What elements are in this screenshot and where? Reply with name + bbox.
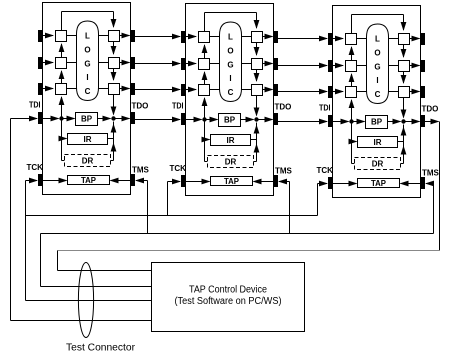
net TDO long return line bbox=[58, 250, 440, 252]
U3 output pin row3 bbox=[421, 86, 426, 98]
U2 TMS pin bbox=[274, 175, 279, 187]
U1 wire node A down to DR bbox=[61, 119, 63, 161]
U1 scan wire up into left cell3 bbox=[61, 97, 63, 119]
U3 wire node A to BP bbox=[352, 121, 365, 123]
U1 wire pin to cell row3 with arrow bbox=[43, 88, 54, 90]
svg-text:IR: IR bbox=[374, 138, 382, 147]
U1 boundary-scan cell right row1 bbox=[109, 31, 120, 42]
U3 TAP controller box bbox=[358, 179, 400, 188]
svg-text:C: C bbox=[375, 90, 381, 99]
U1 TAP controller box bbox=[68, 176, 110, 185]
svg-text:L: L bbox=[375, 35, 380, 44]
U2 wire cell to pin row1 with arrow bbox=[263, 36, 273, 38]
svg-text:O: O bbox=[84, 46, 90, 55]
U1 TCK pin bbox=[38, 174, 43, 186]
U2 wire logic to cell row3 bbox=[242, 89, 252, 91]
wire U1 TDO to U2 TDI bbox=[135, 119, 180, 121]
svg-text:IR: IR bbox=[84, 135, 92, 144]
svg-text:TMS: TMS bbox=[275, 167, 293, 176]
U3 wire node A down to DR bbox=[351, 122, 353, 164]
U3 output pin row2 bbox=[421, 60, 426, 72]
U1 TDI pin bbox=[38, 112, 43, 124]
net TMS drop from U2 TMS pin bbox=[279, 181, 290, 183]
svg-text:TAP: TAP bbox=[224, 177, 240, 186]
U2 scan wire up into left cell3 bbox=[204, 98, 206, 120]
U2 wire IR out to riser bbox=[251, 139, 257, 141]
svg-text:TDI: TDI bbox=[29, 101, 41, 110]
U2 input pin row2 bbox=[181, 58, 186, 70]
U2 input pin row3 bbox=[181, 84, 186, 96]
U3 wire logic to cell row1 bbox=[389, 38, 399, 40]
net TCK riser to U2 TCK pin bbox=[167, 182, 169, 216]
U2 bypass register BP bbox=[219, 114, 241, 127]
U3 wire cell to logic row1 bbox=[357, 38, 367, 40]
U1 input pin row1 bbox=[38, 30, 43, 42]
U3 boundary-scan cell left row3 bbox=[346, 87, 357, 98]
svg-text:TMS: TMS bbox=[422, 169, 440, 178]
U3 scan wire down into right cell1 bbox=[403, 15, 405, 31]
net TDO wire to TAP control device bbox=[57, 251, 59, 271]
net TDI wire from TAP control device to U1 TDI pin bbox=[11, 118, 38, 120]
U1 wire logic to cell row1 bbox=[99, 35, 109, 37]
U1 wire cell to pin row3 with arrow bbox=[120, 88, 130, 90]
U3 wire cell to logic row2 bbox=[357, 65, 367, 67]
svg-text:I: I bbox=[86, 73, 88, 82]
svg-text:TAP: TAP bbox=[81, 176, 97, 185]
U1 wire BP to node B bbox=[98, 118, 111, 120]
svg-text:TDO: TDO bbox=[132, 102, 149, 111]
U1 node B junction bbox=[111, 116, 115, 120]
U3 bypass register BP bbox=[366, 116, 388, 129]
U1 boundary-scan cell left row1 bbox=[56, 31, 67, 42]
U3 boundary-scan cell left row1 bbox=[346, 34, 357, 45]
U3 boundary-scan cell left row2 bbox=[346, 61, 357, 72]
U3 scan wire right cell2 to cell3 bbox=[403, 71, 405, 83]
U2 boundary-scan cell right row3 bbox=[252, 85, 263, 96]
U1 bypass register BP bbox=[76, 113, 98, 126]
test connector ellipse bbox=[78, 263, 93, 338]
U2 scan wire cell2 to cell1 bbox=[204, 45, 206, 58]
U1 node A junction bbox=[59, 116, 63, 120]
U3 scan wire cell2 to cell1 bbox=[351, 47, 353, 60]
U1 scan wire right cell2 to cell3 bbox=[113, 68, 115, 80]
net TDO return from U3 TDO pin with arrow bbox=[425, 121, 439, 123]
svg-text:BP: BP bbox=[371, 118, 383, 127]
U3 wire TMS pin to TAP with arrow bbox=[401, 183, 421, 185]
wire U2 row2 output to U3 row2 input bbox=[278, 65, 327, 67]
U3 boundary-scan cell right row2 bbox=[399, 61, 410, 72]
svg-text:TAP Control Device: TAP Control Device bbox=[189, 285, 267, 296]
U1 wire stub into IR with arrow bbox=[62, 138, 67, 140]
net TMS wire to TAP control device bbox=[40, 234, 42, 287]
U1 wire cell to logic row3 bbox=[67, 88, 77, 90]
wire U2 row3 output to U3 row3 input bbox=[278, 91, 327, 93]
U1 scan wire right cell1 to cell2 bbox=[113, 41, 115, 54]
U1 wire cell to pin row2 with arrow bbox=[120, 62, 130, 64]
U1 wire pin to cell row1 with arrow bbox=[43, 35, 54, 37]
net TCK wire to TAP control device bbox=[26, 300, 152, 302]
U1 scan wire cell2 to cell1 bbox=[61, 44, 63, 57]
wire U2 TDO to U3 TDI bbox=[278, 121, 327, 123]
U1 wire TCK pin to TAP with arrow bbox=[43, 180, 67, 182]
U1 input pin row3 bbox=[38, 83, 43, 95]
net TMS drop from U1 TMS pin bbox=[136, 180, 148, 182]
U3 wire TDI pin to node A bbox=[333, 121, 349, 123]
U2 wire TMS pin to TAP with arrow bbox=[254, 181, 274, 183]
U1 wire cell to logic row1 bbox=[67, 35, 77, 37]
U2 scan wire cell3 to cell2 bbox=[204, 72, 206, 84]
svg-text:TCK: TCK bbox=[317, 166, 334, 175]
U2 node A junction bbox=[202, 117, 206, 121]
U2 wire BP to node B bbox=[241, 119, 254, 121]
U2 scan wire down into right cell1 bbox=[256, 13, 258, 29]
U1 input pin row2 bbox=[38, 57, 43, 69]
svg-text:C: C bbox=[85, 87, 91, 96]
U2 wire pin to cell row2 with arrow bbox=[186, 63, 197, 65]
U3 wire logic to cell row2 bbox=[389, 65, 399, 67]
svg-text:G: G bbox=[227, 61, 233, 70]
device U2 package outline bbox=[186, 4, 274, 196]
net TCK vertical trunk bbox=[25, 181, 27, 301]
U1 scan wire over logic top bbox=[61, 12, 63, 31]
U2 output pin row3 bbox=[274, 84, 279, 96]
U1 riser DR/IR up to node B with arrows bbox=[113, 122, 115, 161]
U3 scan wire right cell1 to cell2 bbox=[403, 44, 405, 57]
U3 wire pin to cell row3 with arrow bbox=[333, 91, 344, 93]
U1 wire cell to logic row2 bbox=[67, 62, 77, 64]
U3 node B junction bbox=[401, 119, 405, 123]
U1 TDO pin bbox=[131, 112, 136, 124]
U2 boundary-scan cell right row1 bbox=[252, 32, 263, 43]
U3 node A junction bbox=[349, 119, 353, 123]
wire U1 row2 output to U2 row2 input bbox=[135, 63, 180, 65]
TAP control device box bbox=[152, 263, 305, 332]
U1 wire TDI pin to node A bbox=[43, 118, 59, 120]
U2 input pin row1 bbox=[181, 31, 186, 43]
svg-text:C: C bbox=[228, 88, 234, 97]
U3 instruction register IR bbox=[358, 137, 398, 148]
U2 output pin row1 bbox=[274, 31, 279, 43]
U2 scan wire right cell2 to cell3 bbox=[256, 69, 258, 81]
U2 boundary-scan cell right row2 bbox=[252, 59, 263, 70]
U3 wire cell to logic row3 bbox=[357, 91, 367, 93]
U3 input pin row2 bbox=[328, 60, 333, 72]
svg-text:(Test Software on PC/WS): (Test Software on PC/WS) bbox=[175, 296, 282, 307]
U3 wire pin to cell row1 with arrow bbox=[333, 38, 344, 40]
U3 wire cell to pin row2 with arrow bbox=[410, 65, 420, 67]
U1 wire TMS pin to TAP with arrow bbox=[111, 180, 131, 182]
net TCK wire into U1 TCK pin bbox=[26, 180, 38, 182]
device U1 package outline bbox=[43, 3, 131, 195]
U2 LOGIC core block bbox=[220, 22, 242, 102]
U3 TDO pin bbox=[421, 115, 426, 127]
svg-text:TAP: TAP bbox=[371, 179, 387, 188]
svg-text:TDI: TDI bbox=[172, 102, 184, 111]
U2 wire TDI pin to node A bbox=[186, 119, 202, 121]
U3 wire pin to cell row2 with arrow bbox=[333, 65, 344, 67]
U3 output pin row1 bbox=[421, 33, 426, 45]
U2 wire TCK pin to TAP with arrow bbox=[186, 181, 210, 183]
net TMS drop from U3 TMS pin bbox=[426, 183, 434, 185]
U1 data register DR (dashed) bbox=[65, 155, 111, 167]
svg-text:BP: BP bbox=[224, 116, 236, 125]
svg-text:IR: IR bbox=[227, 136, 235, 145]
U1 scan wire cell3 to cell2 bbox=[61, 71, 63, 83]
U2 TCK pin bbox=[181, 175, 186, 187]
svg-text:Test Connector: Test Connector bbox=[66, 343, 136, 354]
U2 wire stub into IR with arrow bbox=[205, 139, 210, 141]
svg-text:O: O bbox=[227, 47, 233, 56]
U1 wire logic to cell row3 bbox=[99, 88, 109, 90]
U2 wire pin to cell row3 with arrow bbox=[186, 89, 197, 91]
U3 input pin row3 bbox=[328, 86, 333, 98]
U2 TDO pin bbox=[274, 113, 279, 125]
svg-text:TDO: TDO bbox=[422, 105, 439, 114]
U3 boundary-scan cell right row3 bbox=[399, 87, 410, 98]
U3 wire node B to TDO pin bbox=[404, 121, 420, 123]
U2 TAP controller box bbox=[211, 177, 253, 186]
svg-text:I: I bbox=[376, 76, 378, 85]
svg-text:O: O bbox=[374, 49, 380, 58]
U1 wire node B to TDO pin bbox=[114, 118, 130, 120]
U3 scan wire cell3 to cell2 bbox=[351, 74, 353, 86]
U1 boundary-scan cell left row2 bbox=[56, 58, 67, 69]
U3 scan wire right cell3 to TDO node bbox=[403, 97, 405, 118]
U3 scan wire up into left cell3 bbox=[351, 100, 353, 122]
U3 scan wire over logic top bbox=[351, 15, 353, 34]
U2 wire logic to cell row2 bbox=[242, 63, 252, 65]
U3 data register DR (dashed) bbox=[355, 158, 401, 170]
U2 wire cell to logic row3 bbox=[210, 89, 220, 91]
U1 wire logic to cell row2 bbox=[99, 62, 109, 64]
U1 instruction register IR bbox=[68, 134, 108, 145]
U1 LOGIC core block bbox=[77, 21, 99, 101]
U1 wire pin to cell row2 with arrow bbox=[43, 62, 54, 64]
U2 boundary-scan cell left row2 bbox=[199, 59, 210, 70]
U2 TDI pin bbox=[181, 113, 186, 125]
U2 wire node A down to DR bbox=[204, 120, 206, 162]
svg-text:G: G bbox=[374, 63, 380, 72]
U2 wire cell to logic row1 bbox=[210, 36, 220, 38]
net TMS distribution line bbox=[41, 233, 434, 235]
U2 wire cell to pin row3 with arrow bbox=[263, 89, 273, 91]
svg-text:TCK: TCK bbox=[27, 163, 44, 172]
U3 wire BP to node B bbox=[388, 121, 401, 123]
wire U2 row1 output to U3 row1 input bbox=[278, 38, 327, 40]
U2 scan wire right cell1 to cell2 bbox=[256, 42, 258, 55]
U1 scan wire right cell3 to TDO node bbox=[113, 94, 115, 115]
U2 instruction register IR bbox=[211, 135, 251, 146]
net TCK riser to U3 TCK pin bbox=[317, 184, 319, 216]
U2 output pin row2 bbox=[274, 58, 279, 70]
U1 wire node A to BP bbox=[62, 118, 75, 120]
U1 output pin row2 bbox=[131, 57, 136, 69]
U3 wire DR out to riser bbox=[401, 163, 404, 165]
U2 wire logic to cell row1 bbox=[242, 36, 252, 38]
svg-text:DR: DR bbox=[372, 160, 384, 169]
U2 scan wire right cell3 to TDO node bbox=[256, 95, 258, 116]
U2 wire node B to TDO pin bbox=[257, 119, 273, 121]
svg-text:L: L bbox=[228, 33, 233, 42]
U1 wire cell to pin row1 with arrow bbox=[120, 35, 130, 37]
U3 input pin row1 bbox=[328, 33, 333, 45]
svg-text:TCK: TCK bbox=[170, 164, 187, 173]
net TCK distribution line bbox=[26, 215, 318, 217]
U1 boundary-scan cell left row3 bbox=[56, 84, 67, 95]
svg-text:I: I bbox=[229, 74, 231, 83]
U2 node B junction bbox=[254, 117, 258, 121]
U1 scan wire down into right cell1 bbox=[113, 12, 115, 28]
U2 wire cell to pin row2 with arrow bbox=[263, 63, 273, 65]
U3 TDI pin bbox=[328, 115, 333, 127]
U3 LOGIC core block bbox=[367, 24, 389, 104]
wire U1 row3 output to U2 row3 input bbox=[135, 89, 180, 91]
svg-text:DR: DR bbox=[225, 158, 237, 167]
svg-text:G: G bbox=[84, 60, 90, 69]
svg-text:TDI: TDI bbox=[319, 104, 331, 113]
svg-text:DR: DR bbox=[82, 157, 94, 166]
U3 TMS pin bbox=[421, 177, 426, 189]
U2 riser DR/IR up to node B with arrows bbox=[256, 123, 258, 162]
U3 wire TCK pin to TAP with arrow bbox=[333, 183, 357, 185]
U2 boundary-scan cell left row3 bbox=[199, 85, 210, 96]
U2 scan wire over logic top bbox=[204, 13, 206, 32]
U3 riser DR/IR up to node B with arrows bbox=[403, 125, 405, 164]
svg-text:L: L bbox=[85, 32, 90, 41]
U1 boundary-scan cell right row3 bbox=[109, 84, 120, 95]
svg-text:TDO: TDO bbox=[275, 103, 292, 112]
svg-text:TMS: TMS bbox=[132, 166, 150, 175]
U1 wire IR out to riser bbox=[108, 138, 114, 140]
U1 boundary-scan cell right row2 bbox=[109, 58, 120, 69]
U3 wire logic to cell row3 bbox=[389, 91, 399, 93]
U3 wire cell to pin row3 with arrow bbox=[410, 91, 420, 93]
U1 output pin row3 bbox=[131, 83, 136, 95]
device U3 package outline bbox=[333, 6, 421, 198]
svg-text:BP: BP bbox=[81, 115, 93, 124]
U1 wire DR out to riser bbox=[111, 160, 114, 162]
U1 TMS pin bbox=[131, 174, 136, 186]
wire U1 row1 output to U2 row1 input bbox=[135, 36, 180, 38]
U3 wire IR out to riser bbox=[398, 141, 404, 143]
U3 wire cell to pin row1 with arrow bbox=[410, 38, 420, 40]
U1 output pin row1 bbox=[131, 30, 136, 42]
U2 data register DR (dashed) bbox=[208, 156, 254, 168]
U2 wire cell to logic row2 bbox=[210, 63, 220, 65]
U2 wire pin to cell row1 with arrow bbox=[186, 36, 197, 38]
U3 wire stub into IR with arrow bbox=[352, 141, 357, 143]
U2 wire node A to BP bbox=[205, 119, 218, 121]
U2 boundary-scan cell left row1 bbox=[199, 32, 210, 43]
U3 boundary-scan cell right row1 bbox=[399, 34, 410, 45]
U2 wire DR out to riser bbox=[254, 161, 257, 163]
U3 TCK pin bbox=[328, 177, 333, 189]
